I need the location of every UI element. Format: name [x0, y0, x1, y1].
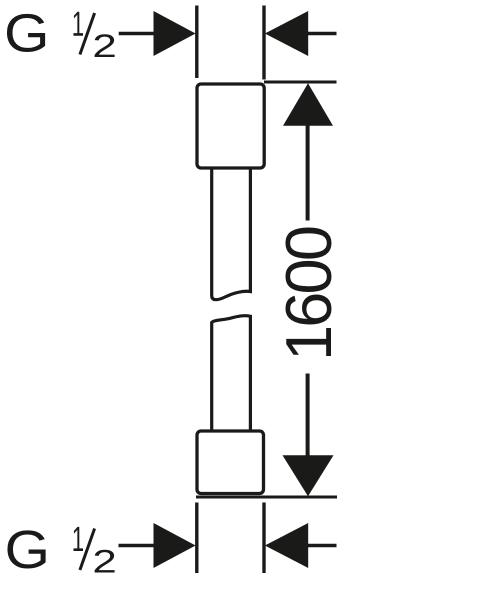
leader line top left — [119, 32, 155, 36]
extension line bottom right — [262, 503, 265, 574]
svg-text:G: G — [5, 520, 51, 580]
label G 1/2 top: fraction numerator 1 — [73, 12, 82, 36]
arrow bottom right (points left) — [265, 523, 308, 568]
leader line bottom right — [307, 544, 337, 548]
label G 1/2 bottom: fraction numerator 1 — [73, 527, 82, 551]
reference line top — [264, 81, 337, 84]
hose top connector body — [197, 84, 264, 168]
reference line bottom — [196, 496, 337, 499]
dimension line lower segment — [306, 374, 310, 457]
arrow top left (points right) — [154, 11, 196, 56]
dimension arrow up — [283, 83, 333, 126]
arrow bottom left (points right) — [154, 523, 196, 568]
hose lower tube segment with break — [212, 316, 251, 431]
svg-text:1600: 1600 — [272, 225, 345, 361]
label G 1/2 bottom: fraction denominator 2 — [95, 550, 115, 573]
extension line top left — [195, 6, 198, 79]
label G 1/2 bottom: fraction slash — [80, 529, 95, 571]
dimension arrow down — [283, 455, 334, 496]
label G 1/2 top: fraction denominator 2 — [95, 34, 115, 57]
arrow top right (points left) — [265, 11, 308, 56]
hose bottom connector body — [197, 431, 264, 494]
leader line top right — [307, 32, 337, 36]
extension line top right — [262, 6, 265, 80]
dimension line upper segment — [306, 124, 310, 221]
leader line bottom left — [119, 544, 156, 548]
svg-text:G: G — [4, 4, 50, 64]
hose upper tube segment with break — [212, 167, 251, 300]
extension line bottom left — [195, 503, 198, 574]
label G 1/2 top: fraction slash — [80, 13, 95, 55]
